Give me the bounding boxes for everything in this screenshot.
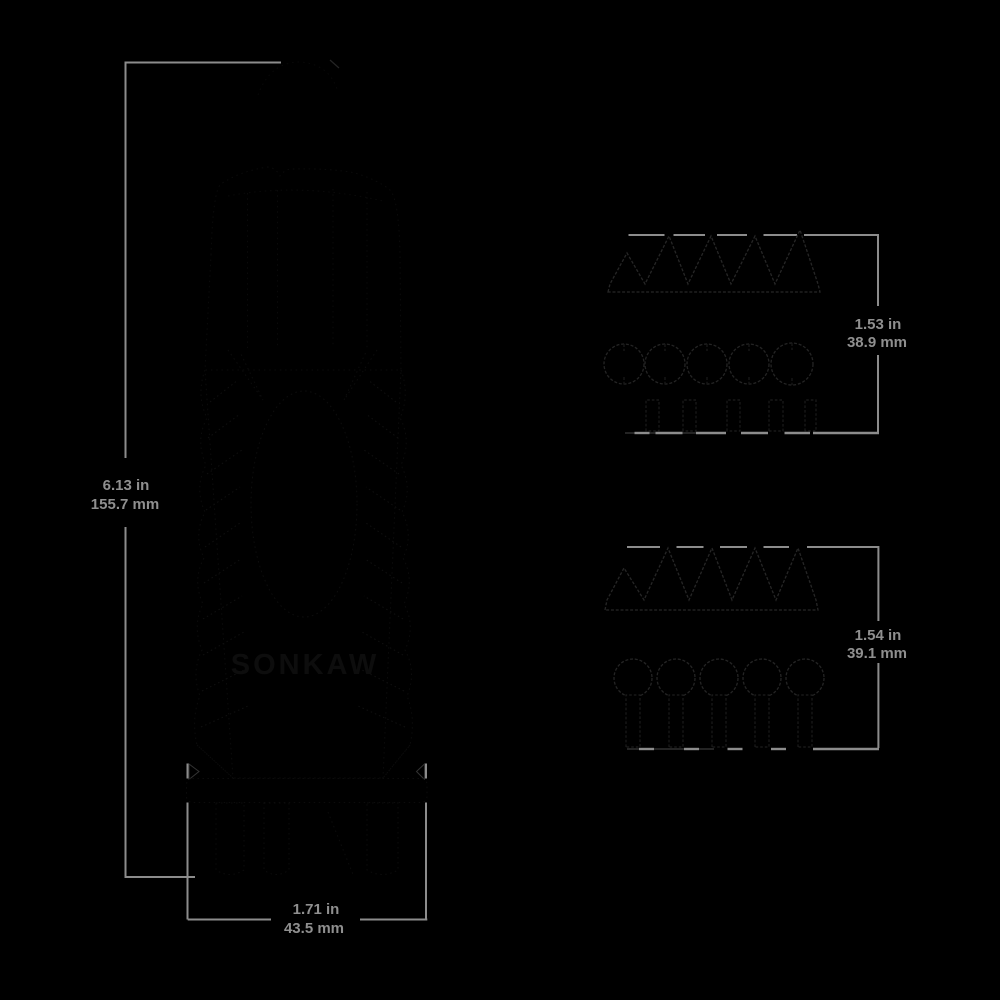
detail box 1 pin circles xyxy=(604,343,813,385)
svg-text:1.54 in: 1.54 in xyxy=(855,627,902,644)
svg-text:39.1 mm: 39.1 mm xyxy=(847,645,907,662)
device speaker oval xyxy=(251,391,357,617)
detail box 2 label 1.54 in / 39.1 mm xyxy=(847,627,907,662)
svg-text:43.5 mm: 43.5 mm xyxy=(284,920,344,937)
device horn left xyxy=(228,350,263,400)
height label 6.13 in / 155.7 mm xyxy=(91,477,159,513)
width arrowhead right xyxy=(417,764,425,780)
svg-text:1.71 in: 1.71 in xyxy=(293,901,340,918)
svg-text:6.13 in: 6.13 in xyxy=(103,477,150,494)
svg-text:38.9 mm: 38.9 mm xyxy=(847,334,907,351)
device fin ribs left xyxy=(201,380,248,727)
device fin body left xyxy=(195,370,233,778)
device body taper xyxy=(197,745,410,778)
detail box 1 label 1.53 in / 38.9 mm xyxy=(847,316,907,351)
device plug prongs xyxy=(216,803,398,877)
width arrowhead left xyxy=(189,764,199,780)
device fin ribs right xyxy=(358,380,405,727)
detail box 2 pin stems xyxy=(626,695,812,747)
device fin body right xyxy=(383,370,412,778)
svg-text:155.7 mm: 155.7 mm xyxy=(91,496,159,513)
width dimension bracket (1.71 in) xyxy=(188,764,428,920)
width label 1.71 in / 43.5 mm xyxy=(284,901,344,937)
detail box 2 pin circles xyxy=(614,659,824,697)
device head outline xyxy=(205,167,401,370)
device head inner arc xyxy=(228,190,383,201)
detail box 2 fin teeth xyxy=(605,548,818,610)
device plug base plate xyxy=(187,779,428,803)
detail box 1 pin feet xyxy=(646,400,816,431)
device horn right xyxy=(344,350,377,400)
detail box 1 bottom dim line xyxy=(625,432,879,434)
detail box 1 dimension (1.53 in) xyxy=(629,234,879,433)
detail box 1 fin teeth xyxy=(608,230,820,292)
svg-text:1.53 in: 1.53 in xyxy=(855,316,902,333)
device top clip xyxy=(258,62,338,95)
height dimension bracket (6.13 in) xyxy=(125,63,282,878)
svg-text:SONKAW: SONKAW xyxy=(231,649,380,681)
detail box 2 dimension (1.54 in) xyxy=(627,546,878,748)
detail box 2 bottom dim line xyxy=(627,748,879,750)
device head seams xyxy=(248,189,368,348)
